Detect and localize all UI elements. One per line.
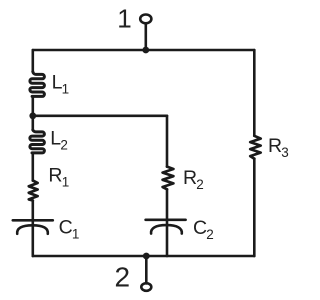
terminal 1 stub <box>145 24 148 51</box>
capacitor C1 curved plate <box>17 225 48 234</box>
resistor R2 <box>163 167 174 190</box>
terminal 2 stub <box>145 256 148 283</box>
junction dot terminal 1 <box>142 47 149 54</box>
inductor L1 <box>30 72 45 97</box>
svg-text:L1: L1 <box>52 71 70 96</box>
inductor L2 <box>30 130 45 153</box>
wire top <box>33 49 255 52</box>
junction dot terminal 2 <box>143 253 150 260</box>
svg-text:R3: R3 <box>268 135 289 160</box>
wire right lower (from R3) <box>253 159 256 256</box>
wire middle horizontal <box>33 115 167 118</box>
wire left L2-R1 <box>31 153 34 181</box>
wire middle vertical (to R2) <box>166 116 169 167</box>
svg-text:1: 1 <box>117 3 131 33</box>
resistor R1 <box>29 181 38 201</box>
svg-text:C2: C2 <box>193 217 214 242</box>
svg-text:C1: C1 <box>59 216 80 241</box>
capacitor C2 top plate <box>146 219 186 222</box>
terminal 1 circle <box>140 15 151 24</box>
svg-text:R1: R1 <box>48 165 69 190</box>
terminal 2 circle <box>141 283 151 291</box>
wire left top (to L1) <box>31 50 34 72</box>
wire middle vertical R2-bottom through C2 <box>166 189 169 256</box>
capacitor C1 top plate <box>13 219 53 222</box>
resistor R3 <box>250 136 261 159</box>
svg-text:2: 2 <box>115 261 131 292</box>
wire left R1-bottom through C1 <box>31 201 34 257</box>
junction dot node A (L1/L2/mid wire) <box>29 112 36 119</box>
capacitor C2 curved plate <box>151 225 182 234</box>
svg-text:R2: R2 <box>183 167 204 192</box>
wire bottom <box>33 255 255 258</box>
wire right upper (to R3) <box>253 50 256 136</box>
wire left L1-L2 <box>31 96 34 129</box>
svg-text:L2: L2 <box>50 128 68 153</box>
